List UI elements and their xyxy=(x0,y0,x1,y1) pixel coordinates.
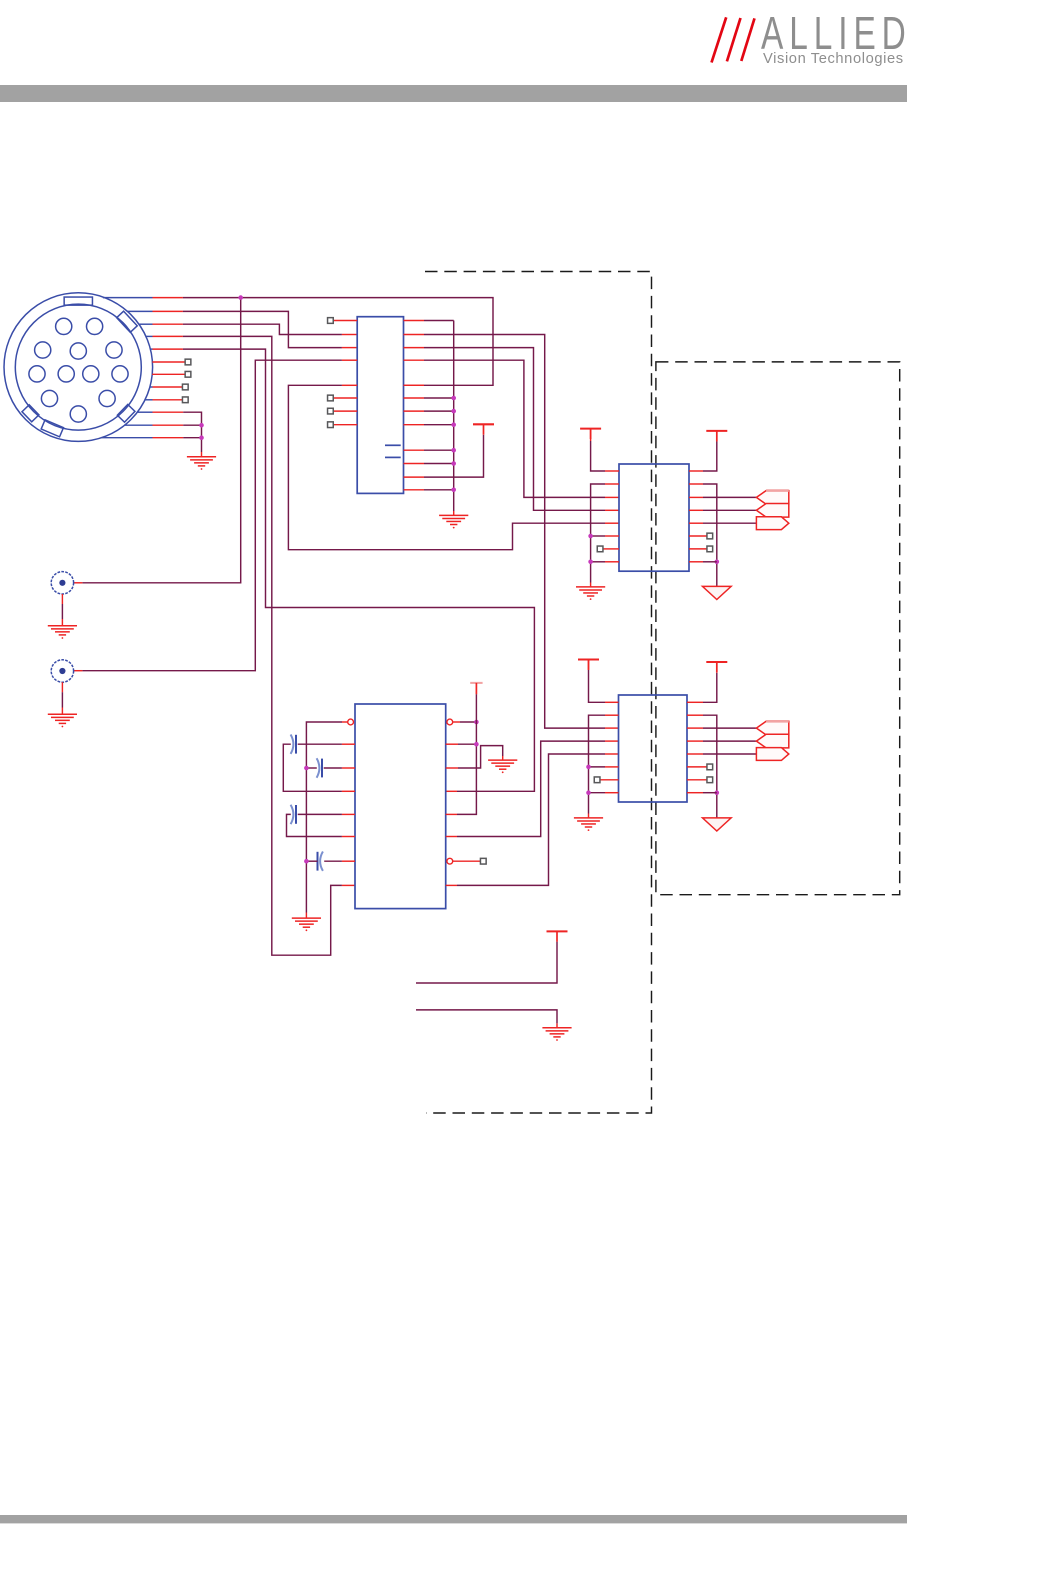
wire C2 to ground rail xyxy=(306,767,316,769)
junction dot U2 L8 xyxy=(588,560,593,565)
U3 pin L2 wire xyxy=(298,743,355,745)
ground connector shield xyxy=(187,457,216,470)
capacitor C2 xyxy=(317,758,322,777)
U1 pin R5 stub xyxy=(404,384,425,386)
ground TP2 xyxy=(48,714,77,727)
U1 pin R2 wire to U4 pin L3 xyxy=(404,335,619,729)
U2 pin L7 wire xyxy=(603,548,619,550)
U1 ground rail vertical xyxy=(453,321,455,516)
U4 pin L6 wire xyxy=(589,766,619,768)
U4 pin R4 wire to port xyxy=(687,740,756,742)
IC U4 body xyxy=(619,695,688,802)
U4 pin L2 wire to ground xyxy=(589,715,619,818)
U3 pin R8 wire to U4 pin L5 xyxy=(446,754,619,885)
junction dot net11 xyxy=(199,423,204,428)
U4 pin R3 wire to port xyxy=(687,727,756,729)
U3 power rail vertical to pin R5 xyxy=(446,694,477,814)
junction dot U1 R8 xyxy=(451,422,456,427)
test point TP1 xyxy=(51,572,73,594)
power VCC T1 xyxy=(473,424,494,434)
no-connect square U1 L8 xyxy=(328,422,334,428)
U4 pin L1 wire to power xyxy=(589,660,619,702)
wire net1 connector pin1 to U1 pin R5 xyxy=(103,298,493,386)
U1 pin R12 wire xyxy=(404,489,454,491)
power VCC T6 xyxy=(706,662,727,672)
U2 pin R2 wire to ground triangle xyxy=(689,484,717,586)
port flag U4 C xyxy=(756,748,788,761)
U4 pin R2 wire to ground triangle xyxy=(687,715,717,818)
port flag U4 B xyxy=(756,734,788,748)
U1 pin R4 wire to U2 pin L3 xyxy=(404,360,620,497)
no-connect square U2 R7 xyxy=(707,546,713,552)
U1 pin L1 wire xyxy=(333,320,357,322)
U1 pin L4 wire to test point TP2 xyxy=(74,360,358,671)
U1 pin L7 wire xyxy=(333,410,357,412)
wire net6 connector pin6 xyxy=(152,361,185,363)
U3 pin R1 bubble xyxy=(447,719,453,725)
no-connect square U2 R6 xyxy=(707,533,713,539)
wire C4 to ground rail xyxy=(306,860,317,862)
wire net10 connector pin10 to ground xyxy=(137,412,201,457)
U3 pin R7 wire xyxy=(453,860,481,862)
ground triangle U4 xyxy=(703,818,732,831)
U3 pin R7 bubble xyxy=(447,858,453,864)
no-connect square net8 xyxy=(182,384,188,390)
U4 pin R8 wire xyxy=(687,792,717,794)
U2 pin R5 wire to port xyxy=(689,522,756,524)
IC U1 internal marks xyxy=(385,445,401,457)
U1 pin R9 wire xyxy=(404,449,454,451)
dashed boundary box 2 xyxy=(656,362,900,895)
junction dot C4 xyxy=(304,859,309,864)
no-connect square net6 xyxy=(185,359,191,365)
test point TP2 xyxy=(51,660,73,682)
IC U1 body xyxy=(357,317,403,494)
svg-text:Vision Technologies: Vision Technologies xyxy=(763,51,904,67)
wire net5 connector pin5 to U3 pin R4 xyxy=(150,349,534,791)
capacitor C3 xyxy=(291,805,296,824)
junction dot U4 L6 xyxy=(586,765,591,770)
U4 pin R6 wire xyxy=(687,766,707,768)
U3 pin R2 wire xyxy=(446,743,477,745)
TP2 ground wire xyxy=(61,682,63,714)
logo text Vision Technologies xyxy=(763,51,904,67)
junction dot net1 xyxy=(238,295,243,300)
wire net12 connector pin12 xyxy=(102,437,202,439)
ground U3 caps rail xyxy=(292,918,321,931)
ground U3 right xyxy=(488,760,517,773)
junction dot U1 R6 xyxy=(451,396,456,401)
capacitor C1 xyxy=(291,735,296,754)
wire net9 connector pin9 xyxy=(145,399,183,401)
no-connect square net7 xyxy=(185,371,191,377)
no-connect square U1 L6 xyxy=(328,395,334,401)
logo red slashes xyxy=(712,17,755,62)
junction dot U2 L6 xyxy=(588,534,593,539)
power VCC T4 pink xyxy=(470,683,482,694)
ground TP1 xyxy=(48,626,77,639)
U1 pin R3 wire to U2 pin L4 xyxy=(404,348,620,511)
ground U4 left xyxy=(574,818,603,831)
U2 pin R3 wire to port xyxy=(689,496,756,498)
wire net4 connector pin4 to U3 pin L8 xyxy=(146,336,355,955)
U1 pin R6 wire xyxy=(404,397,454,399)
U2 pin R6 wire xyxy=(689,535,707,537)
wire C3 to U3 pin L6 xyxy=(287,814,356,836)
U2 pin L1 wire to power xyxy=(591,429,619,471)
no-connect square U4 R6 xyxy=(707,764,713,770)
U1 pin R10 wire xyxy=(404,463,454,465)
U1 pin R8 wire xyxy=(404,424,454,426)
U2 pin R8 wire xyxy=(689,561,717,563)
port flag U2 A xyxy=(756,491,788,505)
junction dot U4 R8 xyxy=(715,790,720,795)
capacitor C4 xyxy=(318,852,323,871)
U1 pin R7 wire xyxy=(404,410,454,412)
ground triangle U2 xyxy=(703,586,732,599)
U1 pin L8 wire xyxy=(333,424,357,426)
ground U1 rail xyxy=(439,515,468,528)
U3 pin R1 wire xyxy=(453,721,477,723)
no-connect square U4 L7 xyxy=(594,777,600,783)
junction dot U1 R9 xyxy=(451,448,456,453)
U4 pin L7 wire xyxy=(600,779,619,781)
wire net11 connector pin11 xyxy=(125,424,202,426)
IC U2 body xyxy=(619,464,689,571)
junction dot U1 R7 xyxy=(451,409,456,414)
U1 pin R1 wire to ground rail xyxy=(404,320,454,322)
junction dot U2 R8 xyxy=(715,560,720,565)
wire net8 connector pin8 xyxy=(150,386,183,388)
wire net1 branch to test point TP1 xyxy=(74,298,241,583)
U1 pin R11 wire to power xyxy=(404,435,484,477)
U2 pin L6 wire xyxy=(591,535,619,537)
no-connect square U1 L7 xyxy=(328,408,334,414)
IC U3 body xyxy=(355,704,446,909)
no-connect square U2 L7 xyxy=(597,546,603,552)
U3 pin R3 wire to ground xyxy=(446,746,503,768)
U1 pin L5 wire to U2 pin L5 xyxy=(288,385,619,549)
ground U2 left xyxy=(576,587,605,600)
U4 pin R7 wire xyxy=(687,779,707,781)
footer gray bar xyxy=(0,1515,907,1523)
U3 pin R6 wire to U4 pin L4 xyxy=(446,741,619,836)
connector J1 body xyxy=(4,293,153,442)
power VCC T5 xyxy=(578,660,599,670)
dashed boundary box 1 xyxy=(425,272,652,1114)
wire net7 connector pin7 xyxy=(152,373,185,375)
connector J1 keying tabs xyxy=(22,297,137,437)
wire bottom to ground xyxy=(416,1010,557,1028)
port flag U2 B xyxy=(756,504,788,518)
TP1 ground wire xyxy=(61,594,63,626)
junction dot C2 xyxy=(304,766,309,771)
U1 pin L6 wire xyxy=(333,397,357,399)
junction dot U1 R10 xyxy=(451,461,456,466)
junction dot U1 R12 xyxy=(451,488,456,493)
wire net3 connector pin3 to U1 pin L2 xyxy=(139,324,357,334)
no-connect square U4 R7 xyxy=(707,777,713,783)
junction dot net12 xyxy=(199,435,204,440)
U4 pin R5 wire to port xyxy=(687,753,756,755)
U2 pin L2 wire to ground xyxy=(591,484,619,587)
U3 pin L3 wire xyxy=(324,767,355,769)
ground bottom xyxy=(542,1028,571,1041)
U4 pin R1 wire to power xyxy=(687,662,717,702)
wire C1 to U3 pin L4 xyxy=(283,744,355,791)
U4 pin L8 wire xyxy=(589,792,619,794)
no-connect square net9 xyxy=(182,397,188,403)
junction dot U3 R2 xyxy=(474,742,479,747)
junction dot U4 L8 xyxy=(586,790,591,795)
U3 pin L1 bubble xyxy=(348,719,354,725)
wire T7 open stub xyxy=(416,942,557,983)
port flag U4 A xyxy=(756,721,788,735)
U2 pin R1 wire to power xyxy=(689,431,717,471)
power VCC T2 xyxy=(580,429,601,439)
U2 pin R7 wire xyxy=(689,548,707,550)
U3 pin L1 wire to ground rail xyxy=(306,722,347,918)
no-connect square U3 R7 xyxy=(480,858,486,864)
U3 pin L7 wire xyxy=(324,860,355,862)
connector J1 pin circles xyxy=(29,318,128,422)
U2 pin R4 wire to port xyxy=(689,509,756,511)
header gray bar xyxy=(0,85,907,102)
junction dot U3 R1 xyxy=(474,720,479,725)
port flag U2 C xyxy=(756,517,788,530)
U3 pin L5 wire xyxy=(298,813,355,815)
U2 pin L8 wire xyxy=(591,561,619,563)
no-connect square U1 L1 xyxy=(328,318,334,324)
power VCC T7 xyxy=(547,931,568,941)
logo text ALLIED xyxy=(761,6,912,59)
wire net2 connector pin2 to U1 pin L3 xyxy=(128,311,358,347)
power VCC T3 xyxy=(706,431,727,441)
